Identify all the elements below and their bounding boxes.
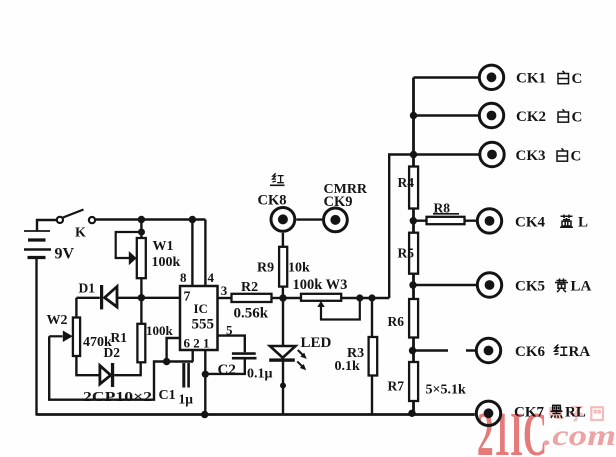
svg-text:R1: R1 (111, 330, 128, 345)
svg-text:.com: .com (543, 419, 616, 452)
svg-text:0.1μ: 0.1μ (247, 367, 273, 382)
svg-text:CK7: CK7 (514, 404, 545, 420)
svg-text:C1: C1 (159, 388, 176, 403)
svg-text:10k: 10k (288, 261, 310, 276)
svg-text:5: 5 (226, 323, 233, 338)
svg-text:K: K (75, 226, 86, 241)
svg-text:R4: R4 (398, 175, 415, 190)
svg-text:CK5: CK5 (515, 278, 545, 294)
svg-text:R7: R7 (388, 378, 405, 393)
svg-text:W1: W1 (153, 239, 174, 254)
svg-text:LA: LA (571, 278, 592, 294)
svg-text:CK1: CK1 (516, 71, 546, 87)
svg-text:5×5.1k: 5×5.1k (426, 382, 466, 397)
svg-text:C2: C2 (218, 362, 236, 378)
svg-text:CK4: CK4 (515, 214, 546, 230)
svg-text:IC: IC (194, 301, 208, 316)
svg-text:6 2 1: 6 2 1 (184, 336, 210, 351)
svg-text:CK9: CK9 (324, 194, 353, 210)
svg-text:0.1k: 0.1k (335, 359, 361, 374)
svg-text:3: 3 (221, 283, 228, 298)
svg-text:1μ: 1μ (179, 392, 194, 407)
svg-text:9V: 9V (55, 246, 75, 263)
svg-text:CK8: CK8 (258, 192, 287, 208)
svg-text:100k: 100k (146, 323, 174, 338)
svg-text:555: 555 (192, 317, 215, 333)
svg-text:R5: R5 (398, 245, 415, 260)
svg-text:D2: D2 (104, 345, 121, 360)
svg-text:CK6: CK6 (515, 344, 546, 360)
svg-text:0.56k: 0.56k (234, 306, 269, 322)
svg-text:100k: 100k (152, 255, 181, 270)
svg-text:2CP10×2: 2CP10×2 (83, 389, 152, 404)
svg-text:RL: RL (565, 404, 586, 420)
svg-text:8: 8 (180, 270, 187, 285)
svg-text:R6: R6 (388, 314, 405, 329)
svg-text:L: L (578, 214, 588, 230)
svg-text:100k W3: 100k W3 (293, 277, 348, 293)
svg-text:R2: R2 (241, 280, 258, 295)
svg-text:R9: R9 (257, 261, 274, 276)
svg-text:LED: LED (301, 335, 332, 351)
svg-text:C: C (572, 71, 583, 87)
svg-text:7: 7 (184, 290, 191, 305)
svg-text:C: C (571, 149, 582, 165)
svg-text:C: C (572, 110, 583, 126)
svg-text:RA: RA (569, 344, 591, 360)
svg-text:W2: W2 (47, 313, 68, 328)
svg-text:CK3: CK3 (516, 148, 546, 164)
svg-text:4: 4 (208, 270, 215, 285)
svg-text:D1: D1 (79, 281, 96, 296)
svg-text:CK2: CK2 (516, 109, 546, 125)
